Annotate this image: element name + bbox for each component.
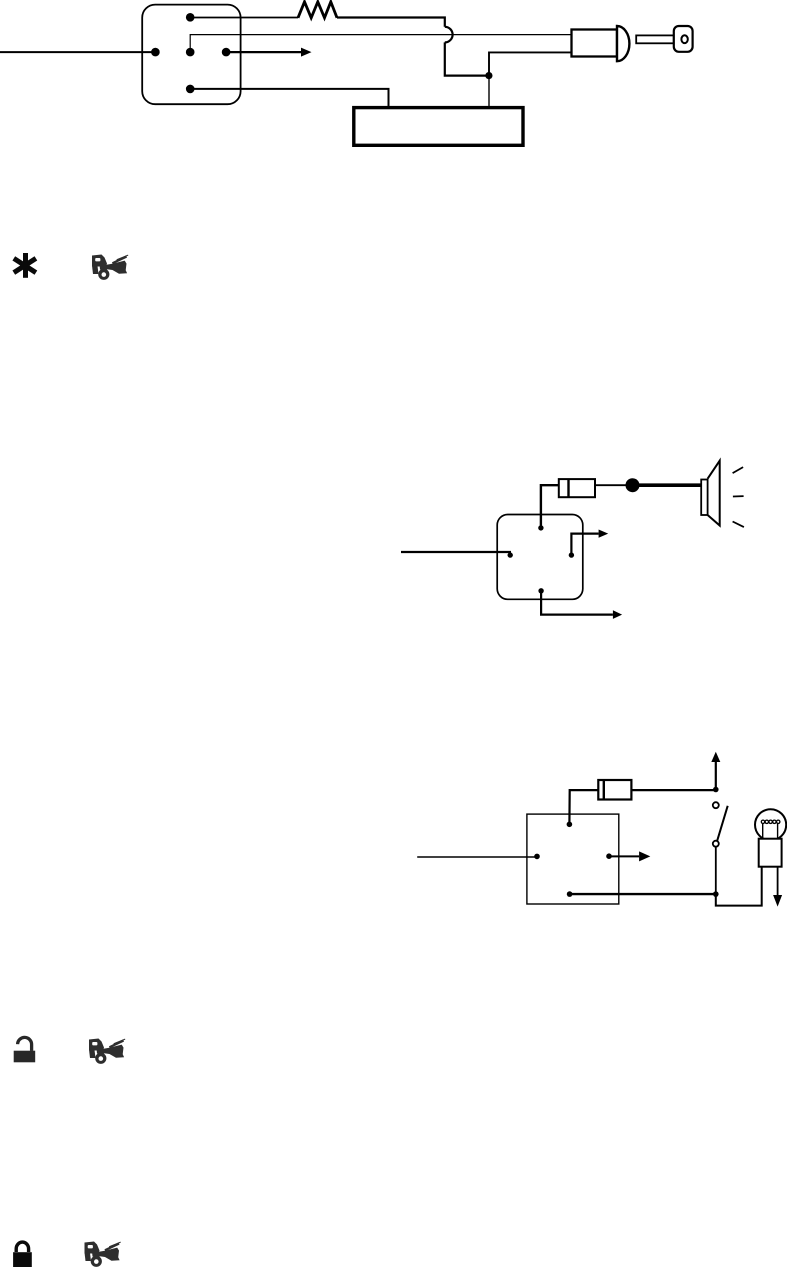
pin dot top	[186, 13, 195, 22]
icon car hood open 3	[85, 1242, 121, 1267]
wire from resistor down	[337, 18, 445, 27]
diode D2	[598, 780, 631, 800]
key hole	[681, 35, 687, 43]
switch lever	[717, 806, 728, 841]
wire bottom pin to control box	[190, 89, 388, 108]
wire input left	[0, 51, 156, 53]
arrow output right pin	[226, 48, 311, 57]
node dot (big)	[626, 478, 640, 492]
node junction dot	[485, 72, 492, 79]
siren speaker cone	[708, 461, 720, 526]
lamp base	[759, 839, 782, 867]
pin dot left	[151, 48, 160, 57]
wire junction to ignition switch	[489, 52, 572, 75]
icon padlock closed	[13, 1242, 32, 1267]
arrow lamp to ground	[773, 867, 782, 907]
node dot at switch top	[713, 787, 719, 793]
control unit box	[354, 108, 523, 146]
key shaft	[636, 35, 674, 43]
relay pin dot left	[508, 552, 513, 557]
wire node to lamp	[716, 867, 762, 906]
key head	[674, 26, 693, 52]
wire to resistor	[190, 17, 298, 19]
relay2 pin dot right	[606, 853, 612, 859]
wire relay to diode	[541, 485, 559, 528]
relay K1 outline	[497, 515, 583, 600]
arrow relay output bottom	[541, 591, 622, 619]
wire junction down to control box	[488, 76, 490, 108]
siren speaker driver	[701, 480, 707, 516]
lamp L1 bulb glass	[755, 809, 786, 840]
relay2 pin dot top	[567, 822, 573, 828]
lamp lead wires	[763, 824, 778, 840]
relay pin dot top	[538, 525, 543, 530]
wire relay2 bottom to node	[570, 893, 716, 895]
sound wave tick middle	[733, 495, 744, 497]
cylinder face cap	[617, 26, 629, 61]
pin dot middle	[186, 48, 195, 57]
sound wave tick bottom	[733, 522, 744, 528]
wire input left	[401, 551, 511, 553]
relay pin dot bottom	[538, 588, 543, 593]
arrow relay2 output right	[609, 851, 650, 861]
switch contact top	[713, 802, 719, 808]
relay2 pin dot left	[534, 854, 540, 860]
sound wave tick top	[733, 467, 744, 473]
wire input left	[417, 856, 537, 858]
icon car hood open 2	[89, 1039, 125, 1064]
node dot bottom	[713, 891, 719, 897]
relay K2 outline	[527, 814, 619, 904]
lamp filament coil	[761, 820, 780, 823]
wire relay2 to diode	[569, 790, 598, 824]
wire node to siren (thick)	[639, 483, 701, 487]
wire hop (crossover)	[445, 27, 453, 43]
ignition switch cylinder	[572, 30, 618, 57]
connector J1 outline	[142, 5, 240, 105]
wire sense thin (middle pin to switch)	[190, 35, 571, 53]
wire switch to node	[715, 847, 717, 894]
icon padlock open	[14, 1037, 36, 1062]
diode D1	[559, 479, 595, 497]
arrow up to +12V	[711, 752, 720, 790]
resistor R1	[298, 2, 337, 18]
pin dot bottom	[186, 85, 195, 94]
relay pin dot right	[569, 552, 574, 557]
switch contact bottom	[713, 841, 719, 847]
pin dot right	[222, 48, 231, 57]
arrow relay output right	[571, 530, 608, 556]
wire down to junction	[445, 42, 489, 75]
icon car hood open 1	[92, 255, 128, 280]
wire diode to node	[595, 484, 627, 486]
icon asterisk (valet mode)	[14, 253, 36, 278]
wire diode to switch node	[631, 789, 715, 791]
relay2 pin dot bottom	[567, 891, 573, 897]
